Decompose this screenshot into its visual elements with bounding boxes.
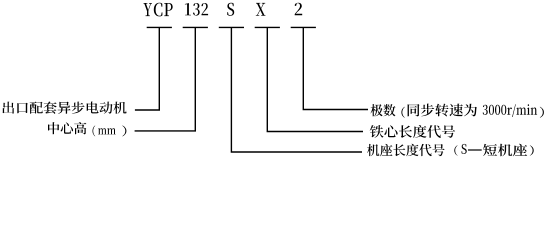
leader line from "2" to label 极数 bbox=[303, 27, 368, 109]
label mm bbox=[98, 128, 116, 134]
label em dash bbox=[468, 149, 482, 150]
label fullwidth open paren bbox=[93, 126, 96, 137]
label fullwidth close paren 2 bbox=[540, 107, 544, 118]
label 出口配套异步电动机 bbox=[2, 102, 126, 114]
label 同步转速为 bbox=[408, 104, 477, 117]
tick bar under "S" bbox=[219, 26, 244, 28]
model code segment "S" bbox=[227, 3, 234, 16]
label fullwidth close paren bbox=[122, 126, 126, 137]
label 短机座 bbox=[483, 144, 527, 156]
tick bar under "X" bbox=[255, 26, 280, 28]
leader line from "132" to label 中心高（mm） bbox=[135, 27, 196, 130]
model code segment "132" bbox=[185, 3, 208, 16]
label 机座长度代号 bbox=[367, 144, 445, 156]
label fullwidth close paren 3 bbox=[530, 145, 534, 156]
label 铁心长度代号 bbox=[370, 125, 455, 138]
leader line from "X" to label 铁心长度代号 bbox=[267, 27, 363, 131]
label 3000r/min bbox=[483, 104, 537, 117]
model code segment "2" bbox=[295, 3, 303, 16]
leader line from "S" to label 机座长度代号 bbox=[231, 27, 362, 152]
label fullwidth open paren 3 bbox=[454, 145, 457, 156]
model code segment "YCP" bbox=[144, 3, 173, 17]
label 中心高 bbox=[48, 122, 86, 134]
label 极数 bbox=[371, 104, 396, 116]
leader line from "YCP" to label 出口配套异步电动机 bbox=[135, 27, 159, 110]
tick bar under "132" bbox=[183, 26, 208, 28]
label fullwidth open paren 2 bbox=[401, 107, 404, 118]
tick bar under "YCP" bbox=[147, 26, 172, 28]
label S (short frame code) bbox=[462, 144, 467, 154]
model code segment "X" bbox=[256, 3, 266, 16]
tick bar under "2" bbox=[291, 26, 316, 28]
